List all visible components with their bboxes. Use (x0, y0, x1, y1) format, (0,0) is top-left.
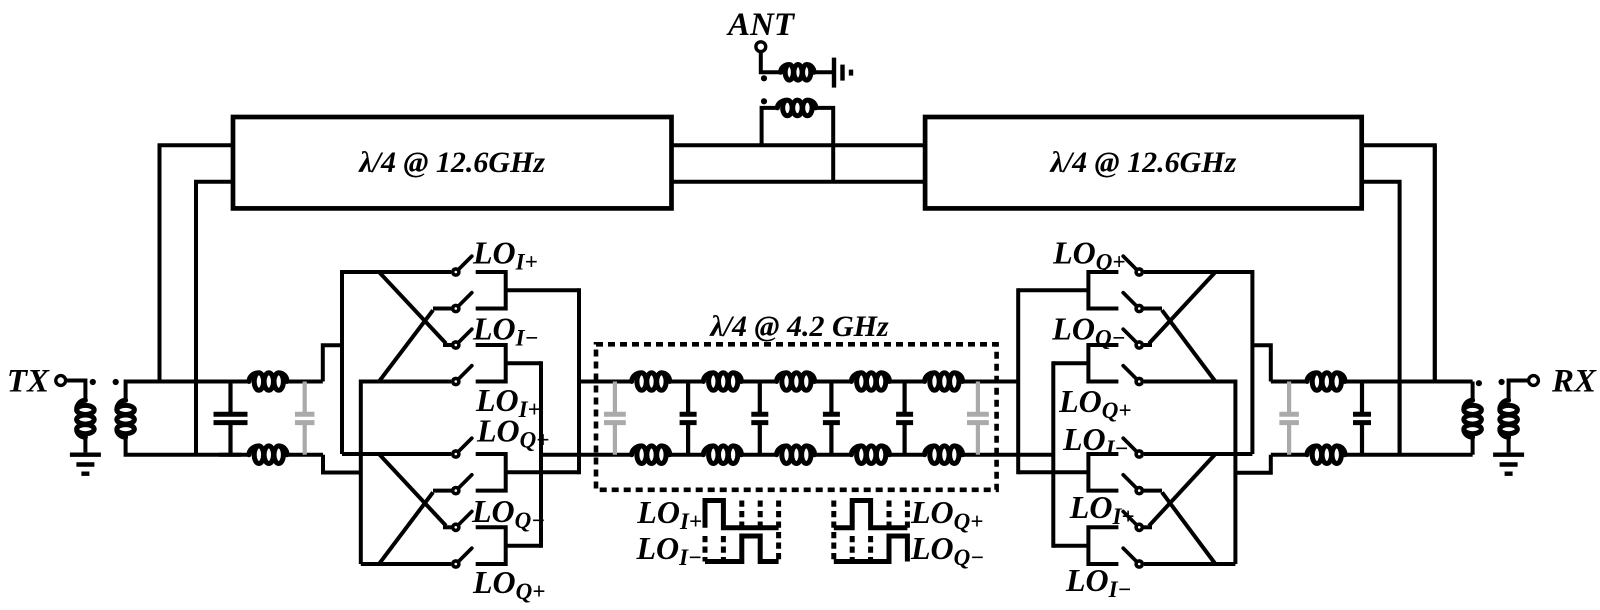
svg-text:λ/4 @ 12.6GHz: λ/4 @ 12.6GHz (357, 146, 545, 179)
svg-text:RX: RX (1551, 364, 1597, 400)
svg-text:λ/4 @ 4.2 GHz: λ/4 @ 4.2 GHz (708, 310, 889, 343)
svg-text:λ/4 @ 12.6GHz: λ/4 @ 12.6GHz (1049, 146, 1237, 179)
svg-text:TX: TX (7, 364, 50, 400)
svg-text:ANT: ANT (726, 7, 796, 43)
